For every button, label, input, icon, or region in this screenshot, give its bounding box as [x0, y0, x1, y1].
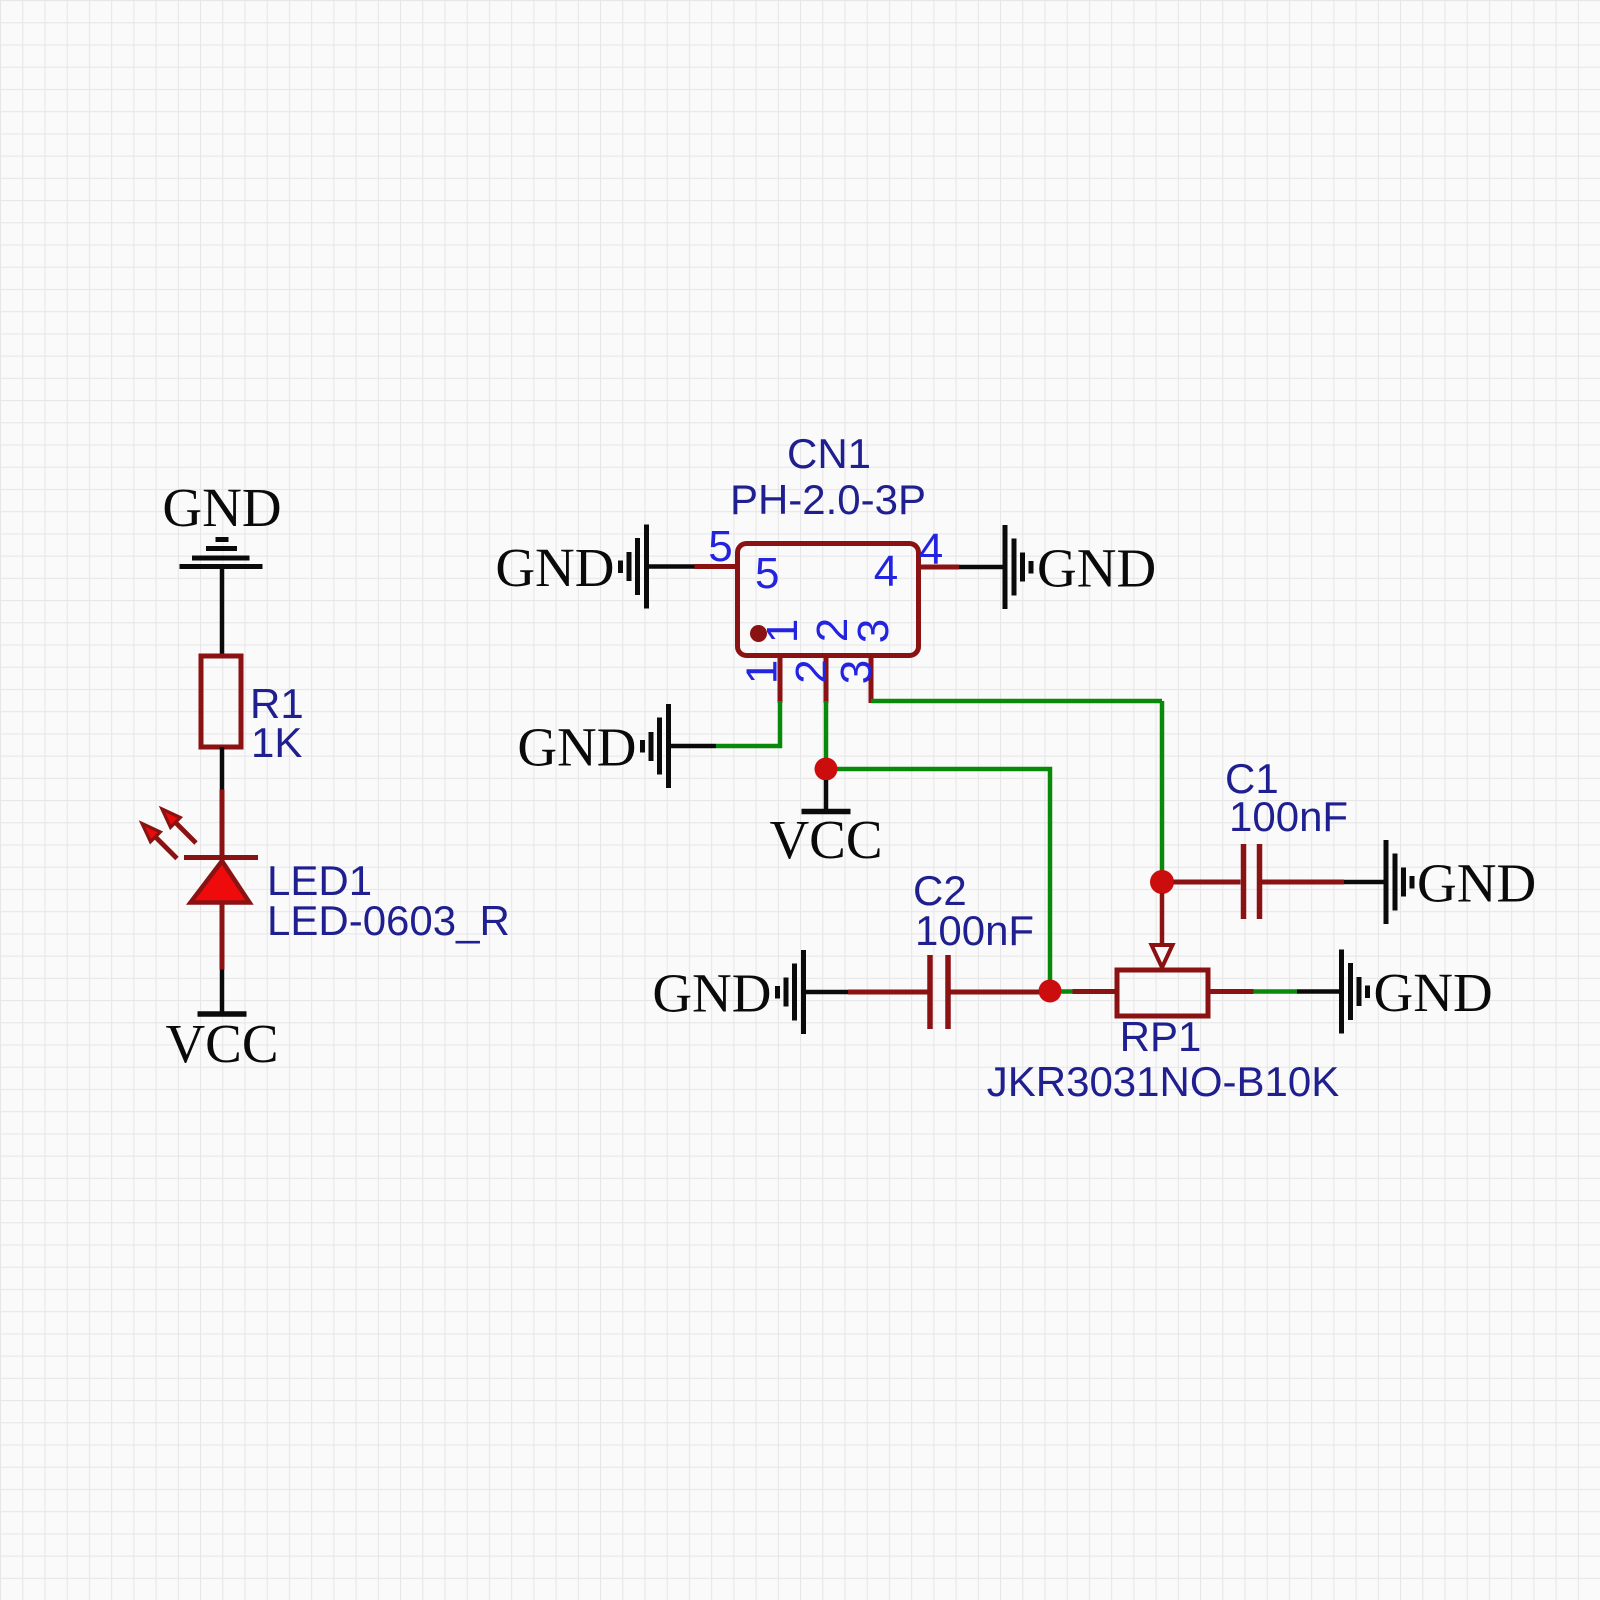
pin wire (C2 left) [848, 990, 928, 995]
svg-text:PH-2.0-3P: PH-2.0-3P [730, 476, 926, 523]
svg-text:GND: GND [1037, 538, 1156, 599]
connector CN1 body [738, 544, 919, 656]
pin wire (RP1 right) [1208, 989, 1254, 994]
wire GND flag stem (C2 left) [806, 990, 848, 995]
pin wire (C2 right) [951, 990, 1040, 995]
capacitor C1 [1244, 844, 1260, 919]
svg-text:GND: GND [162, 477, 281, 538]
pin wire (LED1 cathode pin) [220, 790, 225, 870]
pin wire (C1 left) [1174, 880, 1241, 885]
svg-text:VCC: VCC [165, 1013, 278, 1074]
svg-text:2: 2 [787, 659, 836, 683]
capacitor C2 [930, 955, 948, 1029]
svg-text:5: 5 [755, 549, 779, 598]
svg-text:RP1: RP1 [1120, 1013, 1202, 1060]
svg-text:CN1: CN1 [787, 430, 871, 477]
power VCC (net flag below LED1) [165, 1013, 278, 1074]
svg-text:4: 4 [874, 547, 898, 596]
pin-1 marker dot inside CN1 [750, 625, 767, 642]
svg-text:3: 3 [832, 660, 881, 684]
node junction at C2 / RP1 [1039, 980, 1062, 1003]
ground GND (left of C2) [652, 950, 803, 1034]
svg-text:GND: GND [1417, 853, 1536, 914]
ground GND (right of pin 4) [1005, 525, 1156, 609]
ground GND (net flag above R1) [162, 477, 281, 567]
pin wire (CN1 pin 4) [919, 565, 960, 570]
potentiometer RP1 body [1117, 970, 1208, 1016]
svg-text:GND: GND [517, 717, 636, 778]
RP1 wiper arrow [1152, 945, 1173, 968]
pin wire (C1 right) [1262, 880, 1344, 885]
svg-text:100nF: 100nF [1229, 793, 1348, 840]
ground GND (left of pin 5) [495, 525, 646, 609]
svg-text:3: 3 [849, 619, 898, 643]
pin wire (CN1 pin 3, bottom) [869, 656, 874, 703]
pin wire (RP1 left) [1073, 989, 1118, 994]
pin wire (CN1 pin 1, bottom) [778, 656, 783, 703]
wire GND to R1 [220, 569, 225, 656]
svg-text:VCC: VCC [769, 809, 882, 870]
ground GND (right of C1) [1386, 840, 1536, 924]
wire VCC node to C2/RP1 node (green net) [826, 769, 1050, 991]
svg-text:1: 1 [738, 660, 787, 684]
LED LED1 [142, 809, 258, 903]
wire C1 to GND [1344, 880, 1384, 885]
wire junction to VCC flag [824, 780, 829, 810]
svg-text:100nF: 100nF [915, 907, 1034, 954]
wire RP1 to GND (green net) [1254, 989, 1298, 994]
ground GND (below pin 1) [517, 704, 668, 788]
pin wire (LED1 anode pin) [220, 903, 225, 970]
wire pin 1 to GND (green net) [716, 701, 780, 746]
node junction at C1 / RP1 wiper [1150, 870, 1174, 894]
wire GND flag stem (pin 1) [671, 744, 716, 749]
ground GND (right of RP1) [1342, 950, 1493, 1034]
wire GND flag stem (RP1 right) [1297, 989, 1339, 994]
resistor R1 [201, 656, 241, 747]
pin wire (CN1 pin 5) [695, 564, 738, 569]
node junction at pin 2 / VCC [815, 758, 838, 781]
svg-text:GND: GND [495, 537, 614, 598]
svg-text:LED-0603_R: LED-0603_R [267, 897, 510, 944]
wire pin 2 down to VCC node (green net) [824, 701, 829, 769]
svg-text:GND: GND [1374, 962, 1493, 1023]
wire R1 to LED1 [220, 747, 225, 790]
power VCC (net flag below pin 2) [769, 809, 882, 870]
wire down to C1/RP1 junction (green net) [1160, 701, 1165, 872]
wire pin 3 to C1 node (green net) [871, 699, 1162, 704]
svg-text:5: 5 [708, 522, 732, 571]
svg-text:GND: GND [652, 963, 771, 1024]
wire pin 4 to GND [959, 565, 1003, 570]
wire junction to RP1 wiper [1160, 893, 1165, 945]
wire C2 node to RP1 (green net) [1050, 989, 1073, 994]
pin wire (CN1 pin 2, bottom) [824, 656, 829, 703]
svg-text:1: 1 [758, 619, 807, 643]
wire pin 5 to GND [649, 564, 695, 569]
svg-text:1K: 1K [251, 719, 302, 766]
svg-text:JKR3031NO-B10K: JKR3031NO-B10K [987, 1058, 1340, 1105]
wire LED1 to VCC [220, 970, 225, 1013]
